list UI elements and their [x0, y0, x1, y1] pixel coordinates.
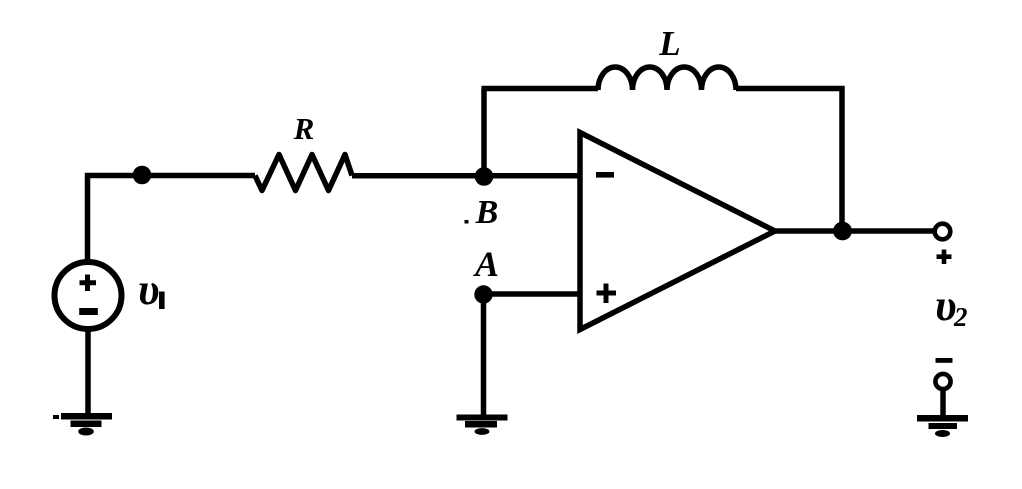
ink speck left of label B [465, 220, 469, 224]
wire: non-inverting input from node A [484, 291, 578, 297]
node dot: junction at top of v1 [133, 166, 152, 185]
v1 plus sign [80, 275, 97, 292]
wire: node A down to ground [481, 294, 487, 417]
output terminal circle (+) [935, 224, 951, 240]
output plus sign [937, 250, 952, 265]
node B dot [475, 167, 494, 186]
ground: under node A [457, 415, 508, 435]
wire: lower output terminal to ground [940, 388, 946, 417]
svg-text:R: R [293, 111, 315, 146]
wire: v1 bottom to ground [85, 328, 91, 415]
svg-text:2: 2 [953, 302, 968, 332]
v1 minus sign [79, 308, 98, 315]
wire: node B up to feedback rail [481, 89, 487, 177]
wire: op-amp output to terminal [775, 228, 935, 234]
wire: left vertical from v1 up to input rail [88, 176, 256, 262]
op-amp minus sign [596, 172, 614, 178]
resistor R [255, 155, 352, 191]
wire: feedback rail right segment and down to output node [736, 89, 842, 232]
wire: resistor to op-amp inverting input through node B [352, 173, 578, 179]
node dot: output junction [833, 222, 852, 241]
op-amp plus sign [597, 284, 617, 304]
ground: under output terminal [917, 415, 968, 437]
output terminal circle (-) [935, 374, 950, 389]
op-amp U1 triangle [580, 133, 775, 330]
node A dot [474, 285, 492, 303]
output minus sign [936, 358, 953, 363]
svg-text:B: B [475, 194, 499, 231]
voltage source v1 [55, 262, 122, 329]
ground: under v1 [53, 413, 112, 436]
svg-text:υ: υ [138, 265, 160, 314]
inductor L [598, 67, 736, 90]
svg-text:L: L [658, 24, 680, 63]
svg-text:A: A [473, 244, 499, 284]
wire: feedback rail left segment [482, 86, 599, 92]
